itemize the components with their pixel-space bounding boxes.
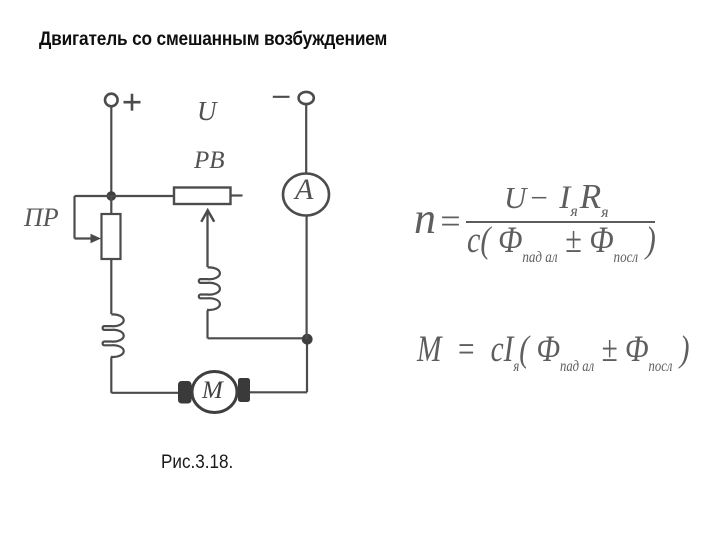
formula 1: n = (U - IR)/(c(F +- F)) <box>414 193 436 244</box>
wire <box>306 339 308 392</box>
terminal minus <box>299 92 314 104</box>
wire <box>206 310 208 338</box>
label PB (RV) <box>194 147 225 175</box>
wire <box>250 391 307 393</box>
wire <box>110 357 112 392</box>
wire stub right of RV <box>231 194 243 196</box>
denominator c( Ф_падал +- Ф_посл ) <box>467 219 656 267</box>
node junction J1 <box>107 191 117 201</box>
ammeter A <box>283 174 329 216</box>
wire <box>111 392 179 394</box>
wire <box>110 259 112 314</box>
label PR (fuse/rheostat) <box>24 203 59 233</box>
label U <box>197 96 217 127</box>
node junction J2 <box>302 334 313 345</box>
motor M body <box>192 372 237 413</box>
wire junction to rheostat top <box>110 196 112 214</box>
minus sign <box>273 96 290 98</box>
inductor coil L1 (shunt winding) <box>103 314 124 357</box>
plus sign <box>124 94 141 111</box>
fraction bar <box>466 221 655 223</box>
arrow into rheostat wiper <box>75 234 102 243</box>
rheostat PR body <box>102 214 121 259</box>
motor brush right <box>238 378 250 402</box>
wire <box>208 337 303 339</box>
motor brush left <box>178 381 192 404</box>
inductor coil L2 (series winding) <box>199 267 220 310</box>
wire <box>305 104 307 174</box>
arrow pointing up at RV <box>201 210 214 267</box>
terminal plus <box>105 94 118 107</box>
numerator U - I_я R_я <box>504 177 609 222</box>
label M in motor <box>202 377 223 405</box>
wire <box>110 106 112 196</box>
label A in ammeter <box>295 173 313 207</box>
wire <box>73 196 75 239</box>
formula 2: M = cI_я(Ф_падал +- Ф_посл) <box>417 328 689 376</box>
wire <box>306 216 308 340</box>
wire <box>75 195 175 197</box>
resistor RV body <box>174 188 231 205</box>
title <box>39 29 387 51</box>
caption <box>161 452 233 474</box>
